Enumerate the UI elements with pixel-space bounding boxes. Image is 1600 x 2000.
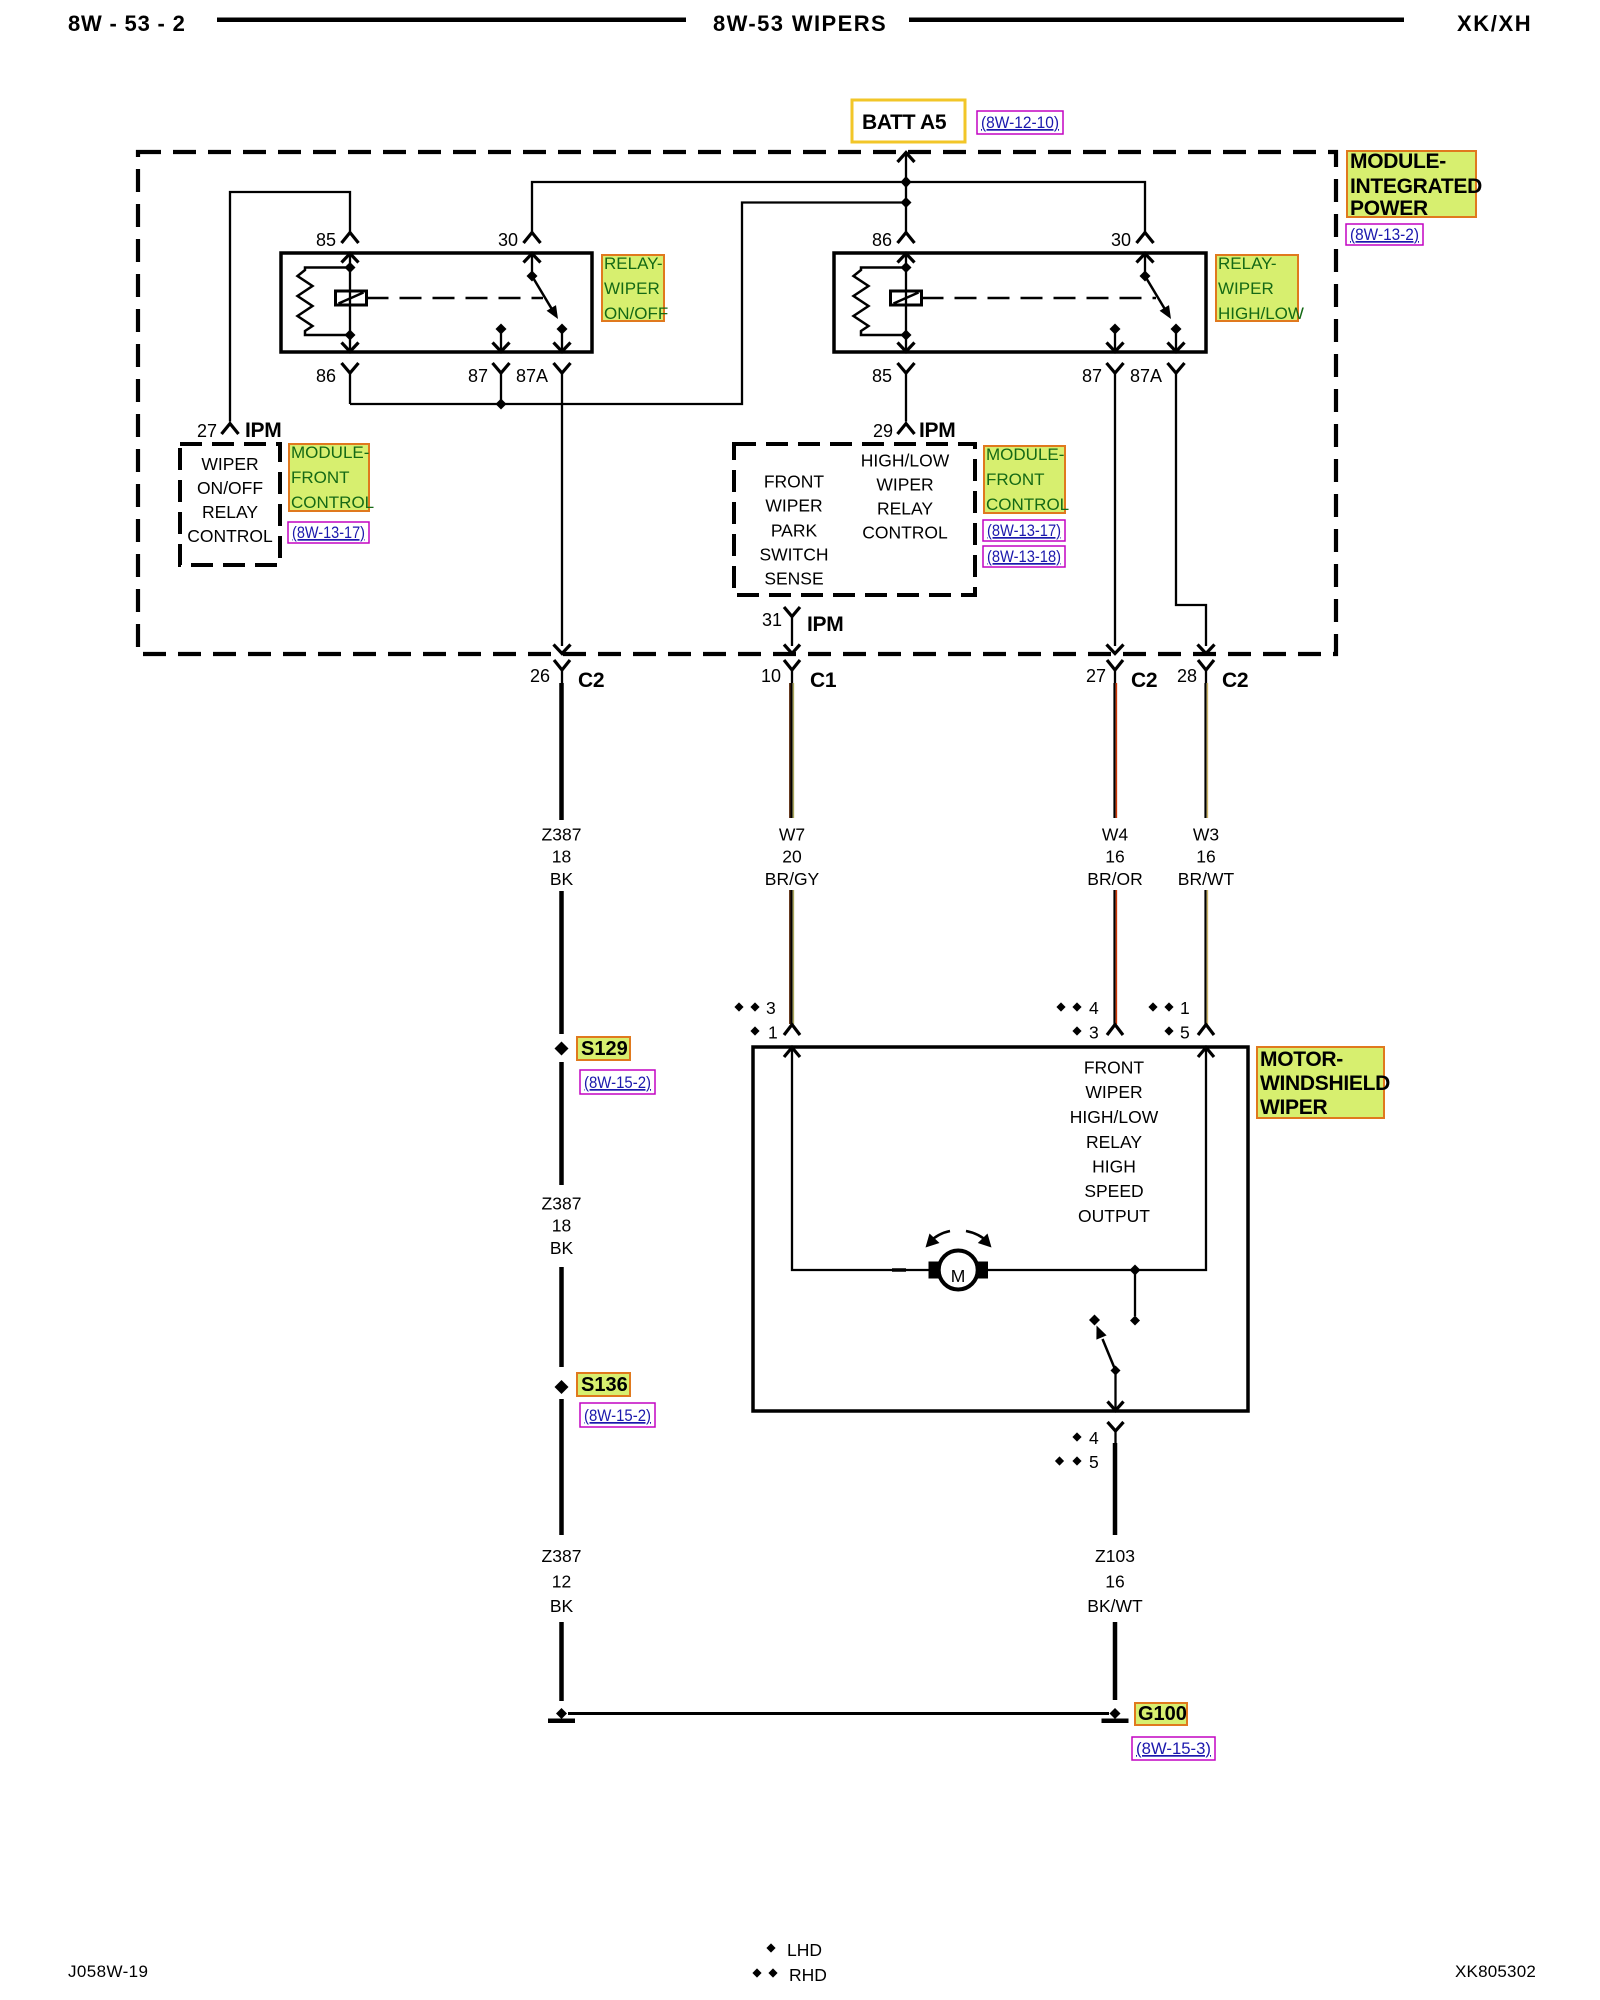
svg-text:WIPER: WIPER: [201, 454, 258, 474]
park switch contact stub: [1134, 1270, 1136, 1316]
svg-text:SWITCH: SWITCH: [759, 545, 828, 565]
connector tail: [1205, 670, 1207, 683]
svg-text:W4: W4: [1102, 825, 1129, 845]
motor connector pins 4(RHD)/3(LHD) markers: [1056, 998, 1099, 1043]
wire: relay K1 pin86 tail: [349, 373, 351, 404]
svg-text:(8W-13-2): (8W-13-2): [1350, 225, 1419, 244]
wire W4 16 BR/OR: [1113, 683, 1115, 1024]
arrowhead up at motor box edge (right input): [1198, 1048, 1214, 1058]
label S136: [577, 1373, 630, 1396]
relay K1 pin 87A internal lead: [561, 329, 563, 352]
header rule right: [909, 18, 1404, 23]
svg-text:BR/WT: BR/WT: [1178, 869, 1235, 889]
wire: ground tie line: [568, 1712, 1109, 1715]
svg-text:C2: C2: [1222, 669, 1248, 692]
svg-text:Z387: Z387: [542, 1194, 582, 1214]
wire Z387 12 BK segment 5: [559, 1399, 564, 1535]
wire: relay K1 pin87 tail: [500, 373, 502, 404]
svg-text:4: 4: [1089, 1428, 1099, 1448]
svg-text:Z387: Z387: [542, 825, 582, 845]
relay K2 switch pivot: [1140, 271, 1151, 282]
relay K2 pin 87 terminal: [1107, 363, 1124, 373]
park switch common point: [1111, 1366, 1121, 1376]
terminal: motor connector (W4): [1107, 1025, 1123, 1036]
svg-text:ON/OFF: ON/OFF: [604, 304, 668, 323]
relay K1 coil resistor: [298, 268, 351, 336]
svg-text:86: 86: [316, 366, 336, 386]
terminal: motor connector (W7): [784, 1025, 800, 1036]
relay K2 pin 87 contact point: [1110, 324, 1121, 335]
connector tail: [561, 670, 563, 683]
svg-text:18: 18: [552, 1216, 571, 1236]
relay K1 87A contact point: [557, 324, 568, 335]
wire W7 20 BR/GY: [790, 683, 792, 1024]
relay K2 switch arm with arrowhead: [1145, 276, 1171, 319]
svg-text:WIPER: WIPER: [876, 475, 933, 495]
node BATT A5 (fused B+): [852, 100, 965, 142]
svg-text:26: 26: [530, 666, 550, 686]
relay K1 pin 30 terminal: [524, 233, 541, 244]
svg-text:WIPER: WIPER: [1218, 279, 1274, 298]
splice S129: [555, 1042, 569, 1056]
park switch contact point: [1130, 1316, 1140, 1326]
module boundary: INTEGRATED POWER MODULE (dashed box): [138, 152, 1336, 654]
motor internal function text: [1070, 1058, 1159, 1227]
svg-text:87A: 87A: [516, 366, 548, 386]
wire label Z387 18 BK (second): [542, 1194, 582, 1259]
svg-text:87: 87: [468, 366, 488, 386]
relay K1 actuation dashed line: [367, 297, 544, 300]
wire label Z103 16 BK/WT: [1087, 1546, 1143, 1616]
motor ground connector pins 4(LHD)/5(RHD) markers: [1055, 1428, 1099, 1472]
svg-text:FRONT: FRONT: [1084, 1058, 1145, 1078]
svg-text:FRONT: FRONT: [764, 472, 825, 492]
svg-text:BK: BK: [550, 1238, 574, 1258]
relay K1 pin 30 internal lead: [531, 253, 533, 276]
wire label W4 16 BR/OR: [1087, 825, 1142, 890]
svg-text:M: M: [951, 1266, 966, 1286]
svg-text:10: 10: [761, 666, 781, 686]
splice S136: [555, 1380, 569, 1394]
wire: BATT A5 feed into module (x=906): [905, 153, 907, 233]
wire: park switch common to box edge: [1114, 1371, 1116, 1412]
svg-text:ON/OFF: ON/OFF: [197, 478, 263, 498]
svg-text:HIGH/LOW: HIGH/LOW: [1070, 1107, 1159, 1127]
label MODULE-FRONT CONTROL (left): [289, 443, 374, 512]
link 8W-15-2: [580, 1070, 655, 1094]
svg-text:30: 30: [1111, 230, 1131, 250]
svg-text:WIPER: WIPER: [604, 279, 660, 298]
svg-text:C2: C2: [578, 669, 604, 692]
legend: LHD marker: [766, 1940, 822, 1960]
relay K2 pin 87A terminal: [1168, 363, 1185, 373]
svg-text:27: 27: [197, 421, 217, 441]
junction: K2 coil top: [901, 262, 912, 273]
wire Z103 16 BK/WT segment 2: [1113, 1622, 1118, 1700]
svg-text:BK: BK: [550, 1596, 574, 1616]
svg-text:RELAY: RELAY: [1086, 1132, 1142, 1152]
svg-text:S129: S129: [581, 1038, 628, 1060]
arrowhead down at module border (87 wire): [1107, 645, 1124, 654]
arrowhead down at motor box edge: [1108, 1402, 1124, 1411]
wire: relay K2 87 to connector C2 pin 27: [1114, 373, 1116, 646]
relay K2 coil resistor: [854, 268, 907, 336]
block: WIPER ON/OFF RELAY CONTROL (dashed): [180, 444, 280, 565]
svg-text:S136: S136: [581, 1374, 628, 1396]
svg-text:HIGH/LOW: HIGH/LOW: [1218, 304, 1304, 323]
svg-text:FRONT: FRONT: [291, 468, 350, 487]
svg-text:(8W-12-10): (8W-12-10): [981, 113, 1059, 132]
svg-text:31: 31: [762, 610, 782, 630]
ground symbol left: [548, 1719, 575, 1724]
wire: relay K1 pin 85 to IPM pin 27: [230, 192, 350, 422]
svg-text:W3: W3: [1193, 825, 1219, 845]
svg-text:WIPER: WIPER: [1085, 1082, 1142, 1102]
park switch open position point: [1089, 1315, 1100, 1326]
svg-text:SENSE: SENSE: [764, 569, 823, 589]
label MODULE-INTEGRATED POWER: [1347, 150, 1482, 220]
svg-text:IPM: IPM: [245, 419, 281, 442]
wire Z103 16 BK/WT segment 1: [1113, 1443, 1118, 1535]
svg-text:WIPER: WIPER: [765, 496, 822, 516]
wire Z387 18 BK segment 2: [559, 891, 564, 1034]
relay K1 pin 85 terminal: [342, 233, 359, 244]
svg-text:12: 12: [552, 1572, 571, 1592]
relay K2 pin 87A internal lead: [1175, 329, 1177, 352]
junction: park switch tap on bus: [1130, 1265, 1141, 1276]
wire: B+ feed to relay1 pins 86/87: [350, 203, 906, 405]
svg-text:(8W-13-18): (8W-13-18): [987, 547, 1061, 566]
svg-text:W7: W7: [779, 825, 805, 845]
park switch arm with arrowhead: [1096, 1326, 1115, 1371]
svg-text:(8W-13-17): (8W-13-17): [292, 523, 365, 542]
relay K2 actuation dashed line: [922, 297, 1157, 300]
svg-text:BK: BK: [550, 869, 574, 889]
label RELAY-WIPER HIGH/LOW: [1216, 254, 1304, 323]
arrowhead up at motor box edge (left input): [784, 1048, 800, 1058]
legend: RHD marker: [752, 1965, 827, 1985]
relay K1 pin 87 contact point: [496, 324, 507, 335]
wire label W7 20 BR/GY: [765, 825, 820, 890]
svg-text:18: 18: [552, 847, 571, 867]
relay K2 coil pin line 86-85: [905, 253, 907, 352]
svg-text:HIGH: HIGH: [1092, 1157, 1136, 1177]
wire W3 16 BR/WT: [1204, 683, 1206, 1024]
svg-text:4: 4: [1089, 998, 1099, 1018]
svg-text:87: 87: [1082, 366, 1102, 386]
wire Z387 12 BK segment 6: [559, 1622, 564, 1701]
connector C2 pin 26 terminal: [554, 660, 570, 670]
svg-text:CONTROL: CONTROL: [862, 523, 948, 543]
link 8W-12-10: [977, 111, 1063, 134]
svg-text:J058W-19: J058W-19: [68, 1962, 148, 1981]
svg-text:WINDSHIELD: WINDSHIELD: [1260, 1072, 1390, 1095]
motor M symbol: [929, 1251, 989, 1290]
block: FRONT WIPER PARK SWITCH SENSE / HIGH-LOW WIPER RELAY CONTROL (dashed): [734, 444, 975, 595]
svg-text:RHD: RHD: [789, 1965, 827, 1985]
motor M1 MOTOR-WINDSHIELD WIPER (box): [753, 1047, 1248, 1411]
svg-text:BR/GY: BR/GY: [765, 869, 820, 889]
relay K2 coil symbol: [891, 291, 922, 305]
svg-text:MODULE-: MODULE-: [986, 445, 1064, 464]
connector tail: [1114, 670, 1116, 683]
junction: K2 coil bottom: [901, 330, 912, 341]
svg-text:27: 27: [1086, 666, 1106, 686]
wire label W3 16 BR/WT: [1178, 825, 1235, 890]
wire Z387 18 BK segment 4: [559, 1267, 564, 1367]
svg-text:CONTROL: CONTROL: [291, 493, 374, 512]
junction: BATT to relay-30 distribution: [901, 176, 912, 188]
label MOTOR-WINDSHIELD WIPER: [1257, 1047, 1390, 1119]
relay K1 switch arm with arrowhead: [532, 276, 558, 319]
svg-text:87A: 87A: [1130, 366, 1162, 386]
wire: thick mark on bus: [892, 1268, 906, 1272]
link 8W-13-18: [983, 546, 1065, 567]
link 8W-13-2: [1346, 224, 1423, 245]
arrowheads at relay K2 box edges: [898, 254, 1185, 352]
svg-text:RELAY: RELAY: [202, 502, 258, 522]
svg-text:3: 3: [1089, 1023, 1099, 1043]
svg-text:MODULE-: MODULE-: [291, 443, 369, 462]
svg-text:FRONT: FRONT: [986, 470, 1045, 489]
junction: relay1 pin87 tap: [496, 399, 507, 410]
svg-text:IPM: IPM: [807, 613, 843, 636]
svg-text:RELAY-: RELAY-: [604, 254, 663, 273]
svg-text:(8W-15-2): (8W-15-2): [584, 1073, 651, 1092]
relay K1 RELAY-WIPER ON/OFF (box): [281, 253, 592, 352]
motor rotation arrows: [926, 1231, 992, 1248]
terminal IPM pin 29: [898, 424, 915, 435]
link 8W-15-3: [1132, 1737, 1215, 1760]
arrowhead down at module border (87A wire): [554, 645, 571, 654]
svg-text:HIGH/LOW: HIGH/LOW: [861, 451, 950, 471]
terminal IPM pin 27: [222, 424, 239, 435]
connector tail: [1114, 1431, 1116, 1443]
connector C1 pin 10 terminal: [784, 660, 800, 670]
terminal: motor connector (W3): [1198, 1025, 1214, 1036]
svg-text:85: 85: [316, 230, 336, 250]
link 8W-13-17 (right): [983, 520, 1065, 541]
link 8W-13-17 (left): [288, 522, 369, 543]
relay K2 pin 86 terminal: [898, 233, 915, 244]
svg-text:G100: G100: [1138, 1703, 1187, 1725]
svg-text:(8W-13-17): (8W-13-17): [987, 521, 1061, 540]
svg-text:OUTPUT: OUTPUT: [1078, 1206, 1150, 1226]
svg-text:IPM: IPM: [919, 419, 955, 442]
junction: coil bottom: [345, 330, 356, 341]
svg-text:1: 1: [1180, 998, 1190, 1018]
svg-text:86: 86: [872, 230, 892, 250]
ground splice left: [556, 1708, 567, 1719]
svg-text:WIPER: WIPER: [1260, 1096, 1327, 1119]
relay K1 coil pin line 85-86: [349, 253, 351, 352]
ground splice right (G100): [1110, 1708, 1121, 1719]
svg-text:3: 3: [766, 998, 776, 1018]
svg-text:CONTROL: CONTROL: [187, 526, 273, 546]
wire: relay K1 87A to connector C2 pin 26: [561, 373, 563, 646]
svg-text:28: 28: [1177, 666, 1197, 686]
relay K1 pin 87 terminal: [493, 363, 510, 373]
label MODULE-FRONT CONTROL (right): [984, 445, 1069, 514]
junction: coil top: [345, 262, 356, 273]
svg-text:CONTROL: CONTROL: [986, 495, 1069, 514]
svg-text:(8W-15-2): (8W-15-2): [584, 1406, 651, 1425]
svg-text:MODULE-: MODULE-: [1350, 150, 1446, 173]
svg-text:1: 1: [768, 1023, 778, 1043]
wire: B+ distribution to both relay pins 30: [532, 182, 1145, 232]
svg-text:20: 20: [782, 847, 802, 867]
wire: IPM pin31 to connector C1 pin 10: [791, 617, 793, 647]
svg-text:Z387: Z387: [542, 1546, 582, 1566]
svg-text:XK/XH: XK/XH: [1457, 11, 1532, 36]
relay K2 RELAY-WIPER HIGH/LOW (box): [834, 253, 1206, 352]
svg-text:BR/OR: BR/OR: [1087, 869, 1142, 889]
relay K1 pin 87 internal lead: [500, 329, 502, 352]
svg-text:RELAY: RELAY: [877, 499, 933, 519]
arrowheads at relay K1 box edges: [342, 254, 571, 352]
relay K1 pin 87A terminal: [554, 363, 571, 373]
header rule left: [217, 18, 686, 23]
svg-text:SPEED: SPEED: [1084, 1181, 1143, 1201]
terminal IPM pin 31: [784, 607, 800, 617]
svg-text:PARK: PARK: [771, 521, 818, 541]
wire: motor right feed internal: [986, 1048, 1207, 1271]
svg-text:85: 85: [872, 366, 892, 386]
relay K1 switch pivot: [527, 271, 538, 282]
wire Z387 18 BK segment 1: [559, 683, 564, 820]
svg-text:5: 5: [1089, 1452, 1099, 1472]
link 8W-15-2 (second): [580, 1403, 655, 1427]
relay K2 87A contact point: [1171, 324, 1182, 335]
ground symbol G100: [1102, 1719, 1129, 1724]
wire label Z387 18 BK: [542, 825, 582, 890]
svg-text:Z103: Z103: [1095, 1546, 1135, 1566]
svg-text:MOTOR-: MOTOR-: [1260, 1048, 1343, 1071]
svg-text:8W-53 WIPERS: 8W-53 WIPERS: [713, 11, 887, 36]
arrowhead down at module border (pin 31 wire): [784, 645, 800, 654]
svg-text:BATT A5: BATT A5: [862, 111, 947, 134]
svg-text:8W - 53 - 2: 8W - 53 - 2: [68, 11, 186, 36]
relay K1 coil symbol: [336, 291, 367, 305]
relay K2 pin 87 internal lead: [1114, 329, 1116, 352]
svg-text:16: 16: [1105, 847, 1124, 867]
motor connector pins 1(RHD)/5(LHD) markers: [1148, 998, 1189, 1043]
connector C2 pin 28 terminal: [1198, 660, 1214, 670]
wire Z387 18 BK segment 3: [559, 1062, 564, 1185]
label RELAY-WIPER ON/OFF: [602, 254, 668, 323]
label S129: [577, 1037, 630, 1060]
arrowhead down at module border (87A wire): [1198, 645, 1215, 654]
svg-text:16: 16: [1196, 847, 1215, 867]
svg-text:30: 30: [498, 230, 518, 250]
junction: BATT to relay1 86/87 feed: [901, 197, 912, 208]
relay K1 pin 86 terminal: [342, 363, 359, 373]
wire: relay K2 87A to connector C2 pin 28: [1176, 373, 1206, 646]
relay K2 pin 85 terminal: [898, 363, 915, 373]
svg-text:INTEGRATED: INTEGRATED: [1350, 175, 1482, 198]
connector tail: [791, 670, 793, 683]
svg-text:29: 29: [873, 421, 893, 441]
relay K2 pin 30 terminal: [1137, 233, 1154, 244]
relay K2 pin 30 internal lead: [1144, 253, 1146, 276]
svg-text:LHD: LHD: [787, 1940, 822, 1960]
svg-text:RELAY-: RELAY-: [1218, 254, 1277, 273]
label G100: [1135, 1703, 1187, 1725]
svg-text:5: 5: [1180, 1023, 1190, 1043]
svg-text:(8W-15-3): (8W-15-3): [1136, 1739, 1211, 1758]
wire: motor low-speed feed internal: [792, 1048, 931, 1271]
svg-text:BK/WT: BK/WT: [1087, 1596, 1143, 1616]
svg-text:C1: C1: [810, 669, 837, 692]
arrowhead up at module border (BATT feed): [898, 153, 915, 163]
wire label Z387 12 BK: [542, 1546, 582, 1616]
svg-text:POWER: POWER: [1350, 197, 1428, 220]
motor connector pins 3(RHD)/1(LHD) markers: [734, 998, 777, 1043]
svg-text:XK805302: XK805302: [1455, 1962, 1536, 1981]
wire: relay K2 pin 85 to IPM pin 29: [905, 373, 907, 422]
connector C2 pin 27 terminal: [1107, 660, 1123, 670]
svg-text:C2: C2: [1131, 669, 1157, 692]
svg-text:16: 16: [1105, 1572, 1124, 1592]
terminal: motor ground connector: [1108, 1422, 1124, 1431]
